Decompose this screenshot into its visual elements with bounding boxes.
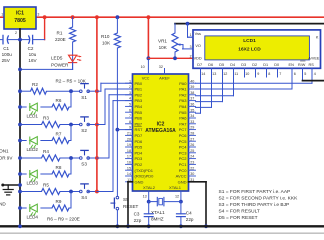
pin 30 AVCC [189, 175, 196, 177]
wire GND rail left [19, 29, 21, 226]
svg-text:VO: VO [195, 44, 201, 48]
svg-text:8: 8 [268, 72, 270, 76]
svg-text:24: 24 [190, 155, 194, 159]
svg-text:PB1: PB1 [135, 87, 143, 92]
svg-text:7805: 7805 [14, 18, 26, 24]
node RST junction [116, 128, 120, 132]
wire S5 to ground [116, 210, 118, 226]
svg-text:LCD1: LCD1 [243, 38, 256, 44]
svg-text:VDD: VDD [194, 56, 202, 60]
svg-text:R4: R4 [43, 149, 49, 154]
svg-text:PC5: PC5 [179, 139, 188, 144]
pin 3 PB2 [126, 94, 133, 96]
svg-text:7: 7 [129, 114, 131, 118]
svg-text:S1 = FOR FIRST PARTY i.e. AAP: S1 = FOR FIRST PARTY i.e. AAP [219, 189, 291, 195]
svg-text:16X2 LCD: 16X2 LCD [238, 46, 261, 52]
svg-text:D4: D4 [230, 63, 235, 67]
LED LED1 green [18, 105, 22, 109]
svg-text:XTAL2: XTAL2 [143, 185, 156, 190]
capacitor C1 100u 25V [2, 35, 4, 43]
svg-text:PA4: PA4 [179, 104, 187, 109]
svg-text:13: 13 [143, 194, 147, 198]
svg-text:A/VEE: A/VEE [308, 56, 320, 60]
svg-text:16: 16 [127, 161, 131, 165]
svg-text:PB4: PB4 [135, 104, 143, 109]
svg-text:K: K [316, 36, 319, 40]
svg-text:GND: GND [135, 179, 144, 184]
svg-text:2: 2 [15, 31, 17, 35]
svg-text:EN: EN [289, 63, 295, 67]
pin 25 PC3 [189, 152, 196, 154]
node +5V junction C2 [43, 15, 47, 19]
svg-text:(TXD)PD1: (TXD)PD1 [135, 168, 154, 173]
wire LED4 row up to node [70, 192, 72, 209]
svg-text:D2: D2 [252, 63, 257, 67]
resistor R7 220E [41, 140, 52, 142]
pin 16 PD2 [126, 163, 133, 165]
wire node to IC pin 3 [97, 157, 109, 159]
pin 26 PC4 [189, 146, 196, 148]
pin 17 PD3 [126, 158, 133, 160]
svg-text:LED3: LED3 [27, 181, 39, 186]
svg-text:FOR 9V: FOR 9V [0, 156, 13, 161]
svg-text:22p: 22p [186, 217, 194, 222]
pin 22 PC0 [189, 169, 196, 171]
svg-text:8: 8 [129, 120, 131, 124]
svg-text:PC3: PC3 [179, 150, 188, 155]
svg-text:1: 1 [190, 33, 192, 37]
capacitor C3 22p [148, 202, 150, 214]
ground symbol [7, 185, 9, 190]
svg-text:R2 – R5 = 10K: R2 – R5 = 10K [56, 79, 87, 84]
svg-text:21: 21 [127, 132, 131, 136]
pin 28 PC6 [189, 134, 196, 136]
LED LED3 green [18, 172, 22, 176]
svg-text:29: 29 [190, 126, 194, 130]
svg-text:30: 30 [190, 172, 194, 176]
svg-text:4: 4 [314, 72, 316, 76]
svg-text:25: 25 [190, 149, 194, 153]
wire input cap row [0, 39, 3, 41]
svg-text:D5: D5 [219, 63, 224, 67]
svg-text:LED4: LED4 [27, 215, 39, 220]
wire GND top line [175, 23, 324, 25]
capacitor C4 22p [180, 202, 182, 214]
svg-text:PA5: PA5 [179, 110, 187, 115]
svg-text:PB0: PB0 [135, 81, 143, 86]
svg-text:PB3: PB3 [135, 98, 143, 103]
svg-text:D7: D7 [197, 63, 202, 67]
resistor R1 220E [71, 15, 75, 19]
pin 21 PD7 [126, 134, 133, 136]
switch S5 RESET [116, 196, 119, 199]
wire D7 to PA5 [200, 68, 202, 113]
svg-text:PC1: PC1 [179, 162, 188, 167]
svg-text:10K: 10K [159, 45, 168, 50]
resistor R4 10K row [18, 156, 22, 160]
wire Vss riser [186, 22, 190, 26]
LED5 POWER red [69, 55, 77, 61]
pin 1 PB0 [126, 82, 133, 84]
svg-text:15: 15 [127, 166, 131, 170]
svg-text:3: 3 [37, 13, 39, 17]
node C row on rail [18, 38, 22, 42]
pin 9 RST [126, 129, 133, 131]
pin 8 PB7 [126, 123, 133, 125]
svg-text:38: 38 [190, 91, 194, 95]
svg-text:6: 6 [294, 72, 296, 76]
svg-text:37: 37 [190, 97, 194, 101]
svg-text:5: 5 [129, 103, 131, 107]
svg-text:25V: 25V [2, 58, 11, 63]
svg-text:R5: R5 [43, 182, 49, 187]
pin 2 PB1 [126, 88, 133, 90]
svg-text:10K: 10K [102, 40, 111, 45]
svg-text:XTAL1: XTAL1 [169, 185, 182, 190]
svg-text:PA0: PA0 [179, 81, 187, 86]
svg-text:Vss: Vss [195, 32, 201, 36]
resistor R5 10K row [18, 190, 22, 194]
svg-text:AREF: AREF [159, 76, 170, 81]
svg-text:S3: S3 [81, 162, 87, 167]
svg-text:4: 4 [129, 97, 131, 101]
wire S4 to +5V rail [88, 191, 97, 193]
wire S3 to +5V rail [88, 157, 97, 159]
svg-text:PB7: PB7 [135, 121, 143, 126]
svg-text:VCC: VCC [142, 76, 150, 81]
svg-text:C4: C4 [186, 210, 192, 215]
resistor R8 220E [41, 173, 52, 175]
svg-text:RS: RS [309, 63, 315, 67]
wire S2 to +5V rail [88, 124, 97, 126]
svg-text:D3: D3 [241, 63, 246, 67]
svg-text:R6: R6 [56, 98, 62, 103]
resistor R3 10K row [18, 123, 22, 127]
svg-text:3: 3 [129, 91, 131, 95]
svg-text:S1: S1 [81, 95, 87, 100]
svg-text:PB6: PB6 [135, 116, 143, 121]
wire RS to PA0 [311, 68, 313, 83]
svg-text:S3 = FOR THIRD PARTY i.e BJP: S3 = FOR THIRD PARTY i.e BJP [219, 202, 290, 208]
pin 6 PB5 [126, 111, 133, 113]
svg-text:220E: 220E [55, 37, 66, 42]
svg-text:17: 17 [127, 155, 131, 159]
svg-text:20: 20 [127, 137, 131, 141]
svg-text:LED5: LED5 [51, 56, 63, 61]
pin 5 PB4 [126, 105, 133, 107]
svg-text:PD7: PD7 [135, 133, 144, 138]
svg-text:2: 2 [129, 85, 131, 89]
wire D6 to PA4 [211, 68, 213, 107]
svg-text:PA1: PA1 [179, 87, 187, 92]
svg-text:PD6: PD6 [135, 139, 144, 144]
svg-text:2: 2 [190, 54, 192, 58]
svg-text:PD3: PD3 [135, 156, 144, 161]
svg-text:22p: 22p [134, 218, 142, 223]
svg-text:S4: S4 [81, 195, 87, 200]
svg-text:(RXD)PD0: (RXD)PD0 [135, 174, 155, 179]
pin 39 PA1 [189, 88, 196, 90]
pin 19 PD5 [126, 146, 133, 148]
svg-text:39: 39 [190, 85, 194, 89]
display LCD1 16X2 body [193, 30, 321, 68]
svg-text:C1: C1 [3, 46, 9, 51]
svg-text:PD4: PD4 [135, 150, 144, 155]
pin 40 PA0 [189, 82, 196, 84]
svg-text:10: 10 [245, 72, 249, 76]
svg-text:27: 27 [190, 137, 194, 141]
potentiometer VR1 10K [174, 24, 176, 33]
wire C2 positive drop [44, 17, 46, 39]
svg-text:32: 32 [159, 65, 163, 69]
pin 36 PA4 [189, 105, 196, 107]
svg-text:C2: C2 [28, 46, 34, 51]
svg-text:D6: D6 [208, 63, 213, 67]
svg-text:40: 40 [190, 79, 194, 83]
svg-text:28: 28 [190, 132, 194, 136]
svg-text:S2 = FOR SECOND PARTY i.e. KK: S2 = FOR SECOND PARTY i.e. KKK [219, 196, 299, 202]
pin 18 PD4 [126, 152, 133, 154]
svg-text:PC6: PC6 [179, 133, 188, 138]
svg-text:R7: R7 [56, 131, 62, 136]
svg-text:1: 1 [129, 79, 131, 83]
resistor R9 220E [41, 207, 52, 209]
svg-text:IC1: IC1 [16, 11, 24, 17]
svg-text:14: 14 [201, 72, 205, 76]
switch S3 [80, 157, 83, 160]
regulator IC1 7805 [4, 7, 36, 29]
svg-text:5: 5 [304, 72, 306, 76]
svg-text:R9: R9 [56, 199, 62, 204]
pin 24 PC2 [189, 158, 196, 160]
svg-text:GND: GND [178, 179, 187, 184]
pin 37 PA3 [189, 100, 196, 102]
wire node to IC pin 4 [97, 191, 113, 193]
node R2/S1 junction [69, 89, 73, 93]
wire D5 to PA3 [222, 68, 224, 101]
svg-text:ATMEGA16A: ATMEGA16A [145, 128, 176, 134]
svg-text:R8: R8 [56, 165, 62, 170]
svg-text:LED1: LED1 [27, 114, 39, 119]
svg-text:POWER: POWER [51, 62, 69, 67]
pin 15 (TXD)PD1 [126, 169, 133, 171]
svg-text:6: 6 [129, 108, 131, 112]
pin 34 PA6 [189, 117, 196, 119]
svg-text:PB5: PB5 [135, 110, 143, 115]
svg-text:18: 18 [127, 149, 131, 153]
wire EN to PA1 [291, 68, 293, 89]
svg-text:22: 22 [190, 166, 194, 170]
svg-text:PA6: PA6 [179, 116, 187, 121]
svg-text:23: 23 [190, 161, 194, 165]
svg-text:12: 12 [175, 194, 179, 198]
svg-text:GND: GND [0, 202, 6, 207]
svg-text:PA7: PA7 [179, 121, 187, 126]
switch S1 [80, 90, 83, 93]
pin 11 GND [126, 181, 133, 183]
resistor R6 220E [41, 106, 52, 108]
svg-text:35: 35 [190, 108, 194, 112]
svg-text:PD5: PD5 [135, 145, 144, 150]
svg-text:LED2: LED2 [27, 147, 39, 152]
svg-text:R2: R2 [32, 82, 38, 87]
svg-text:1: 1 [1, 13, 3, 17]
svg-text:R1: R1 [57, 31, 63, 36]
svg-text:R10: R10 [101, 34, 110, 39]
pin 7 PB6 [126, 117, 133, 119]
wire GND pin 11 to bottom rail [128, 181, 133, 183]
svg-text:12: 12 [223, 72, 227, 76]
wire node to IC pin 2 [97, 124, 105, 126]
svg-text:PC0: PC0 [179, 168, 188, 173]
svg-text:CON1: CON1 [0, 149, 9, 154]
capacitor C2 10u 16V [28, 35, 29, 43]
LED LED2 green [18, 139, 22, 143]
svg-text:RESET: RESET [123, 204, 139, 209]
wire D4 to PA2 [233, 68, 235, 96]
node R3/S2 junction [69, 123, 73, 127]
wire R10 to RST [116, 48, 118, 196]
pin 38 PA2 [189, 94, 196, 96]
svg-text:PD2: PD2 [135, 162, 144, 167]
svg-text:VR1: VR1 [158, 39, 167, 44]
wire LED2 row up to node [70, 125, 72, 141]
svg-text:33: 33 [190, 120, 194, 124]
wire GND branch [3, 184, 20, 186]
svg-text:RST: RST [135, 127, 144, 132]
svg-text:11: 11 [234, 72, 238, 76]
svg-text:100u: 100u [2, 52, 13, 57]
pin 27 PC5 [189, 140, 196, 142]
wire R/W to ground [302, 68, 304, 80]
svg-text:D0: D0 [274, 63, 279, 67]
wire +5V top rail [0, 16, 4, 18]
op IC2 ATMEGA16A body [133, 74, 189, 191]
svg-text:PB2: PB2 [135, 92, 143, 97]
svg-text:PA2: PA2 [179, 92, 187, 97]
svg-text:S2: S2 [81, 128, 87, 133]
svg-text:AVCC: AVCC [176, 174, 187, 179]
svg-text:7: 7 [279, 72, 281, 76]
wire +5V switch rail [95, 15, 99, 19]
wire GND pin 31 to bottom rail [189, 181, 207, 183]
svg-text:13: 13 [212, 72, 216, 76]
svg-text:D5 = FOR RESET: D5 = FOR RESET [219, 215, 258, 221]
svg-text:10u: 10u [29, 52, 37, 57]
pin 14 (RXD)PD0 [126, 175, 133, 177]
wire LED5 cathode to ground rail [72, 63, 74, 70]
crystal XTAL1 8MHz [147, 200, 151, 204]
wire node to IC pin 1 [97, 90, 101, 92]
wire +5V to VCC and LCD VDD [147, 15, 151, 19]
node R4/S3 junction [69, 156, 73, 160]
svg-text:R3: R3 [43, 115, 49, 120]
svg-text:PC2: PC2 [179, 156, 188, 161]
svg-text:9: 9 [129, 126, 131, 130]
wire bottom ground rail [0, 225, 324, 227]
svg-text:PC7: PC7 [179, 127, 188, 132]
svg-text:36: 36 [190, 103, 194, 107]
pin 4 PB3 [126, 100, 133, 102]
switch S2 [80, 123, 83, 126]
pin 20 PD6 [126, 140, 133, 142]
svg-text:19: 19 [127, 143, 131, 147]
svg-text:26: 26 [190, 143, 194, 147]
pin 31 GND [189, 181, 196, 183]
resistor R2 10K row [18, 89, 22, 93]
LED LED4 green [18, 206, 22, 210]
svg-text:C3: C3 [134, 212, 140, 217]
svg-text:PC4: PC4 [179, 145, 188, 150]
svg-text:10: 10 [141, 65, 145, 69]
wire LCD unused stubs D3-D0 [244, 68, 246, 77]
svg-text:16V: 16V [28, 58, 37, 63]
pin 23 PC1 [189, 163, 196, 165]
wire LED1 row up to node [70, 91, 72, 107]
svg-text:14: 14 [127, 172, 131, 176]
pin 33 PA7 [189, 123, 196, 125]
svg-text:PA3: PA3 [179, 98, 187, 103]
resistor R10 10K [116, 15, 120, 19]
svg-text:34: 34 [190, 114, 194, 118]
svg-text:R6 – R9 = 220E: R6 – R9 = 220E [47, 217, 80, 222]
switch S4 [80, 190, 83, 193]
svg-text:9: 9 [257, 72, 259, 76]
svg-text:IC2: IC2 [157, 122, 165, 128]
svg-text:D1: D1 [263, 63, 268, 67]
pin 29 PC7 [189, 129, 196, 131]
wire LED3 row up to node [70, 158, 72, 174]
pin 35 PA5 [189, 111, 196, 113]
node R5/S4 junction [69, 190, 73, 194]
svg-text:R/W: R/W [298, 63, 306, 67]
wire S1 to +5V rail [88, 90, 97, 92]
svg-text:S4 = FOR RESULT: S4 = FOR RESULT [219, 209, 260, 215]
